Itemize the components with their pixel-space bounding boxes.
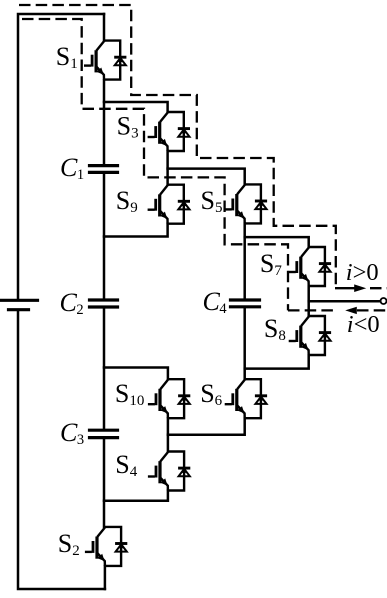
svg-text:S9: S9 [116, 186, 138, 216]
svg-text:S5: S5 [201, 186, 223, 216]
svg-text:i>0: i>0 [346, 259, 379, 286]
svg-text:i<0: i<0 [347, 311, 380, 338]
svg-text:S1: S1 [56, 42, 78, 72]
svg-text:S6: S6 [200, 379, 222, 409]
svg-text:S7: S7 [260, 249, 282, 279]
svg-text:S10: S10 [115, 379, 144, 409]
svg-text:S2: S2 [58, 529, 80, 559]
svg-text:S8: S8 [264, 314, 286, 344]
svg-text:S4: S4 [115, 450, 137, 480]
svg-text:C4: C4 [203, 287, 228, 317]
svg-text:C2: C2 [60, 288, 84, 318]
svg-text:C1: C1 [60, 153, 84, 183]
svg-text:S3: S3 [117, 112, 139, 142]
svg-text:C3: C3 [60, 418, 84, 448]
